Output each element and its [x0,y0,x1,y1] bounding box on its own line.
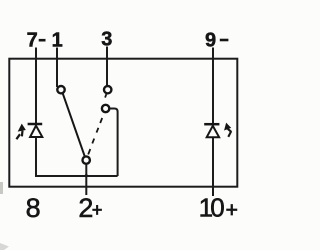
pin label 7-1 [27,30,63,52]
wire: pin 3 lead to NO contact [106,47,108,87]
switch aux contact circle [102,105,109,112]
svg-text:8: 8 [26,193,41,223]
pin label 2+ [78,193,102,223]
LED D1 left: cathode bar [28,123,43,126]
scan mark bottom left corner [0,243,9,250]
wire: pin 10 lead from right LED anode [212,138,214,197]
wire: pin 1 lead to NC contact [56,48,58,88]
LED D1 left: triangle anode [30,126,42,137]
pin label 9- [205,30,228,52]
switch arm dashed (to NO) [88,94,106,154]
wire: pin 7 lead to LED cathode [35,48,37,124]
switch NO contact circle (pin 3) [104,86,111,93]
LED D2 right: photon arrow [225,124,231,137]
svg-text:+: + [92,200,103,220]
pin label 10+ [199,193,238,223]
wire: pin 2 lead from common contact [85,164,87,196]
relay body rectangle [9,59,237,187]
wire: pin 9 lead to right LED cathode [212,48,214,124]
switch common pivot circle [83,156,90,163]
junction: pin2 wire crossing [85,174,88,177]
scan mark left edge [0,182,3,194]
wire: left LED anode down and right to common node [36,137,118,176]
switch NC contact circle (pin 1) [57,86,64,93]
LED D2 right: triangle anode [207,126,219,137]
switch arm solid (to NC) [63,94,85,157]
LED D1 left: photon arrow [16,125,25,140]
wire: bracket from aux contact down to wire [109,109,117,177]
svg-text:0: 0 [210,193,224,223]
LED D2 right: cathode bar [204,123,219,126]
svg-text:+: + [226,199,238,222]
svg-text:9: 9 [205,30,216,52]
